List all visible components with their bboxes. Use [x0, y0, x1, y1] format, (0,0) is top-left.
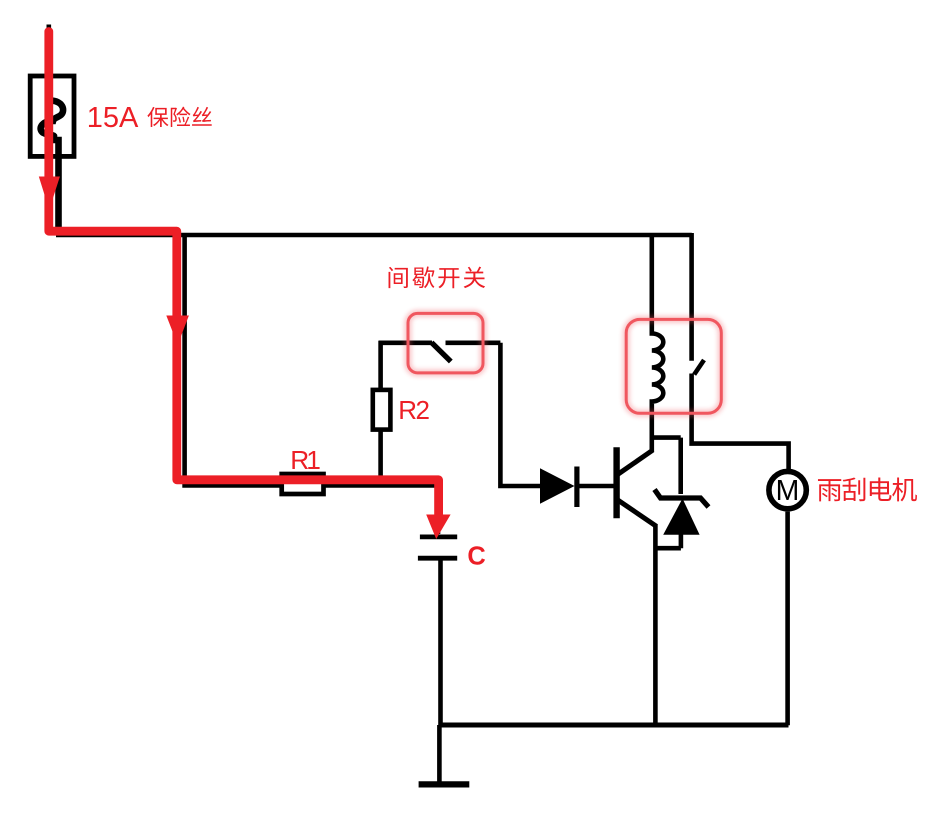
svg-text:R1: R1 [290, 445, 320, 475]
svg-text:M: M [776, 475, 800, 507]
svg-text:15A: 15A [87, 102, 139, 134]
svg-text:C: C [467, 543, 485, 571]
svg-text:R2: R2 [398, 395, 429, 425]
